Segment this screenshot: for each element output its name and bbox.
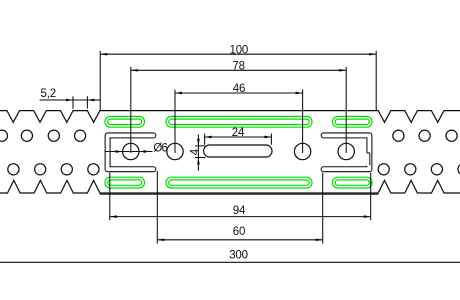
svg-text:5,2: 5,2 [41, 88, 56, 100]
svg-text:78: 78 [232, 61, 244, 73]
svg-text:Ø6: Ø6 [153, 142, 167, 154]
svg-text:94: 94 [233, 205, 246, 217]
svg-text:100: 100 [230, 45, 249, 57]
svg-text:4: 4 [190, 148, 202, 155]
svg-text:46: 46 [233, 83, 245, 95]
svg-text:24: 24 [232, 127, 245, 139]
svg-text:300: 300 [229, 250, 248, 262]
svg-text:60: 60 [233, 226, 245, 238]
